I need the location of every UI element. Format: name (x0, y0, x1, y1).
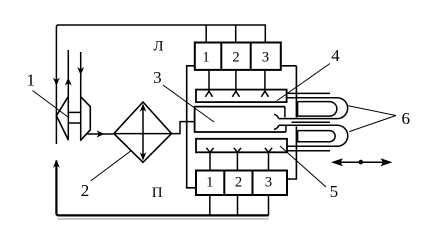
leader line to label 4 (277, 64, 330, 101)
svg-text:Л: Л (153, 38, 163, 54)
arrowhead on wire 1-2 (97, 130, 105, 137)
leader line to label 5 (280, 146, 326, 187)
wire: transducer output to diamond (87, 133, 113, 135)
arrowhead up on line B (65, 77, 72, 85)
plate 5 (lower plate) (196, 139, 287, 153)
contact fork top 2 (232, 70, 239, 97)
nozzle bottom bell lip (274, 125, 279, 129)
horn 6 lower: rod bottom line (287, 150, 330, 152)
horn 6 lower: inner stadium (298, 131, 336, 142)
svg-text:1: 1 (202, 50, 209, 66)
leader lines to label 6 (348, 106, 396, 132)
plate 3 (middle chamber rectangle) (195, 107, 286, 132)
contact fork bottom 3 (265, 148, 272, 171)
svg-text:4: 4 (331, 46, 340, 65)
horn middle separating line (292, 121, 331, 123)
transducer U1 line A (left vertical of element 1) (55, 97, 57, 145)
wire: bottom bus drop from box 3 (268, 195, 270, 216)
wire: top bus drop to box 1 (205, 25, 207, 43)
horn 6 upper: inner stadium (298, 102, 337, 117)
wire: left loop lower segment with bottom bus (56, 161, 268, 216)
wire: top bus drop to box 2 (235, 25, 237, 43)
arrowhead down on line C (77, 67, 84, 75)
leader line to label 2 (91, 151, 131, 181)
wire: bottom bus print shadow (58, 218, 269, 220)
diamond element 2 vertical arrow shaft (142, 107, 144, 158)
arrowhead down on line A (53, 78, 60, 86)
arrowhead up on line A lower (53, 160, 60, 168)
horn 6 upper: rod bottom line with outer bend arc (279, 98, 348, 119)
transducer U1 cone (left-pointing triangle) (56, 97, 68, 141)
svg-text:2: 2 (81, 181, 90, 200)
transducer U1 line B (67, 50, 69, 140)
arrowhead up inside diamond (140, 104, 147, 112)
svg-text:5: 5 (330, 182, 339, 201)
wire: top bus from left corner to top box row (56, 25, 265, 97)
motion double arrow line (333, 161, 390, 163)
heater box row Л (top) (195, 43, 281, 70)
leader line to label 3 (163, 85, 214, 122)
transducer U1 winding rung lower (68, 122, 80, 124)
wire: bottom bus drop from box 2 (237, 195, 239, 216)
svg-text:1: 1 (26, 71, 35, 90)
svg-text:3: 3 (265, 174, 272, 190)
svg-text:2: 2 (235, 174, 242, 190)
transducer U1 line C (80, 52, 82, 141)
contact fork top 1 (205, 70, 212, 97)
wire: diamond output to chamber (172, 122, 196, 134)
leader line to label 1 (33, 91, 69, 118)
horn 6 lower: return line with outer bend arc (279, 125, 348, 146)
nozzle top bell lip (274, 114, 279, 118)
chamber outer box right edge with wire to box 3 (288, 66, 297, 179)
svg-text:3: 3 (262, 50, 269, 66)
contact fork bottom 2 (234, 148, 241, 171)
diamond element 2 horizontal diagonal (114, 133, 172, 135)
motion arrow right head (381, 158, 393, 166)
plate 4 (upper plate) (196, 90, 287, 103)
transducer U1 concentrator pentagon (81, 97, 91, 141)
contact fork bottom 1 (206, 148, 213, 171)
chamber outer box left/top/bottom (187, 66, 297, 188)
svg-text:1: 1 (206, 174, 213, 190)
horn 6 upper: rod top line (287, 92, 331, 94)
svg-text:3: 3 (153, 68, 162, 87)
nozzle right wall segments (285, 107, 286, 132)
motion arrow left head (331, 158, 343, 166)
arrowhead down inside diamond (140, 152, 147, 160)
transducer U1 winding rung upper (68, 111, 80, 113)
svg-text:6: 6 (401, 109, 410, 128)
heater box row П (bottom) (196, 171, 287, 196)
diamond element 2 outline (114, 102, 172, 162)
motion arrow center dot (359, 160, 364, 165)
svg-text:П: П (152, 185, 163, 201)
svg-text:2: 2 (232, 50, 239, 66)
wire: bottom bus drop from box 1 (209, 195, 211, 216)
contact fork top 3 (261, 70, 268, 97)
